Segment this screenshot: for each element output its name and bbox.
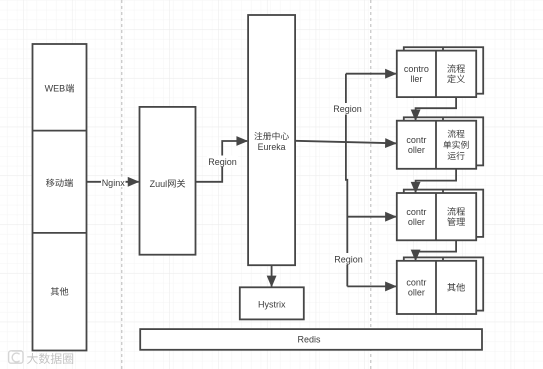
wire trunk to group 3 arrow <box>347 216 396 218</box>
svg-text:Region: Region <box>334 254 363 264</box>
label 其他 (clients) <box>51 287 69 295</box>
label controller (3 流程管理) <box>406 207 426 227</box>
svg-text:Zuul: Zuul <box>150 179 168 189</box>
label WEB端 <box>45 84 74 94</box>
box Zuul网关 <box>140 107 196 255</box>
svg-text:Nginx: Nginx <box>102 178 126 188</box>
svg-text:contr: contr <box>406 278 426 288</box>
client list box (WEB端/移动端/其他) <box>33 44 87 351</box>
label Region (Zuul-Eureka) <box>207 156 238 168</box>
label service (3 流程管理) <box>447 207 465 226</box>
label Region (lower trunk) <box>333 253 364 265</box>
label service (1 流程定义) <box>447 64 465 83</box>
label 移动端 <box>46 179 73 188</box>
svg-text:Redis: Redis <box>297 335 321 345</box>
box Hystrix <box>240 287 304 319</box>
svg-text:oller: oller <box>408 217 425 227</box>
watermark logo <box>9 351 23 363</box>
page boundary dashed line (right) <box>370 0 372 369</box>
watermark text 大数据圈 <box>27 353 73 364</box>
wire group3 to group4 <box>416 240 457 260</box>
wire Zuul to Eureka (elbow) <box>196 141 248 182</box>
svg-text:Eureka: Eureka <box>258 142 286 152</box>
box controller group 3 流程管理 <box>397 190 483 241</box>
box controller group 2 流程单实例运行 <box>397 117 483 169</box>
wire trunk to group 4 arrow <box>347 285 396 287</box>
box 注册中心 Eureka <box>248 15 295 265</box>
label Nginx <box>101 177 126 189</box>
label 注册中心 Eureka <box>254 132 289 152</box>
label controller (4 其他) <box>406 278 426 298</box>
wire Eureka to controller group 2 (horizontal) <box>295 141 396 144</box>
wire Eureka to Hystrix arrow <box>271 265 273 286</box>
label service (4 其他) <box>447 283 465 291</box>
svg-text:ller: ller <box>410 74 422 84</box>
label Redis <box>297 335 321 345</box>
svg-text:oller: oller <box>408 288 425 298</box>
svg-text:contr: contr <box>406 135 426 145</box>
svg-text:contr: contr <box>406 207 426 217</box>
wire group2 to group3 <box>416 169 457 193</box>
wire group1 to group2 <box>416 97 457 120</box>
label Zuul网关 <box>150 179 186 189</box>
page boundary dashed line (left) <box>121 0 123 369</box>
label Hystrix <box>258 299 286 309</box>
wire Nginx arrow (移动端 to Zuul) <box>87 181 139 183</box>
svg-text:WEB: WEB <box>45 84 66 94</box>
wire trunk vertical (Region branches) <box>346 74 347 287</box>
box controller group 4 其他 <box>397 257 483 314</box>
box Redis <box>140 329 482 350</box>
wire trunk to group 1 arrow <box>346 73 396 75</box>
label controller (2 流程单实例运行) <box>406 135 426 155</box>
svg-text:oller: oller <box>408 145 425 155</box>
svg-text:Hystrix: Hystrix <box>258 299 286 309</box>
svg-text:contro: contro <box>404 64 429 74</box>
svg-text:Region: Region <box>333 104 362 114</box>
svg-text:Region: Region <box>208 157 237 167</box>
box controller group 1 流程定义 <box>397 47 483 97</box>
label service (2 流程单实例运行) <box>443 130 468 160</box>
label controller (1 流程定义) <box>404 64 429 84</box>
label Region (upper trunk) <box>332 103 363 115</box>
